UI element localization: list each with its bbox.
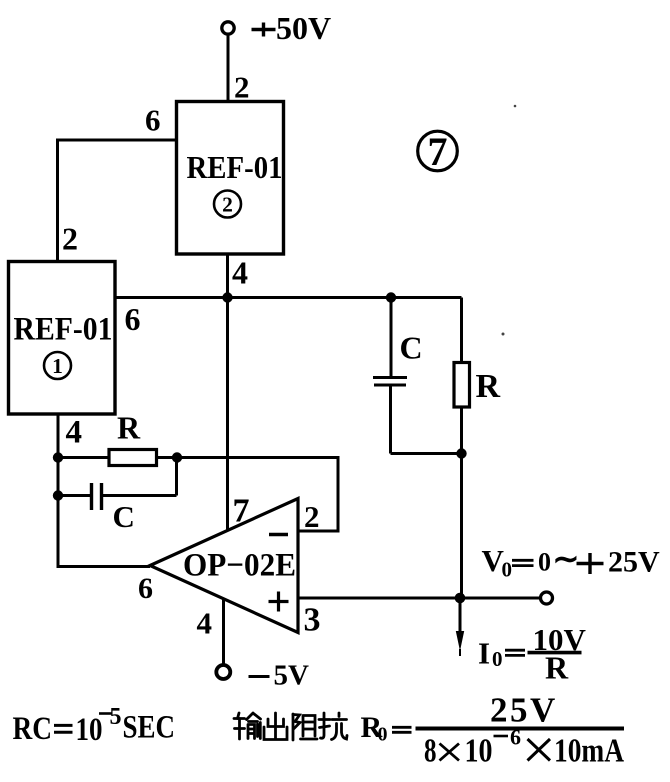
svg-text:4: 4 bbox=[66, 415, 83, 451]
svg-text:4: 4 bbox=[232, 255, 248, 291]
svg-text:2: 2 bbox=[222, 193, 233, 217]
svg-text:0: 0 bbox=[502, 558, 513, 582]
svg-text:6: 6 bbox=[125, 301, 141, 337]
svg-text:1: 1 bbox=[52, 354, 63, 378]
svg-text:7: 7 bbox=[428, 129, 448, 174]
svg-text:3: 3 bbox=[304, 602, 321, 639]
svg-text:2: 2 bbox=[62, 221, 78, 257]
svg-text:2: 2 bbox=[234, 70, 250, 105]
svg-text:0: 0 bbox=[378, 724, 388, 746]
svg-text:10mA: 10mA bbox=[554, 733, 624, 770]
svg-text:C: C bbox=[400, 330, 423, 366]
svg-text:0: 0 bbox=[538, 548, 551, 577]
svg-text:7: 7 bbox=[233, 493, 250, 530]
svg-text:10: 10 bbox=[76, 712, 103, 748]
svg-text:R: R bbox=[117, 410, 141, 446]
svg-text:25V: 25V bbox=[490, 691, 558, 730]
svg-text:∼: ∼ bbox=[553, 541, 580, 577]
svg-text:10: 10 bbox=[465, 733, 493, 770]
svg-text:SEC: SEC bbox=[123, 710, 176, 746]
svg-text:25V: 25V bbox=[608, 546, 660, 579]
svg-text:5: 5 bbox=[110, 704, 122, 730]
svg-text:R: R bbox=[545, 650, 569, 686]
svg-text:0: 0 bbox=[492, 647, 503, 671]
svg-text:4: 4 bbox=[197, 606, 213, 641]
svg-text:6: 6 bbox=[510, 725, 521, 750]
svg-text:OP−02E: OP−02E bbox=[183, 548, 296, 584]
svg-text:5V: 5V bbox=[274, 660, 310, 692]
svg-text:6: 6 bbox=[145, 103, 161, 138]
svg-text:RC: RC bbox=[13, 711, 53, 747]
svg-text:REF-01: REF-01 bbox=[187, 149, 283, 185]
svg-text:2: 2 bbox=[304, 499, 320, 534]
svg-text:R: R bbox=[476, 368, 501, 405]
svg-text:REF-01: REF-01 bbox=[14, 312, 113, 348]
svg-text:8: 8 bbox=[424, 733, 437, 770]
svg-text:6: 6 bbox=[138, 572, 153, 605]
svg-text:C: C bbox=[113, 499, 135, 534]
svg-text:50V: 50V bbox=[276, 10, 331, 46]
svg-text:I: I bbox=[478, 636, 490, 671]
